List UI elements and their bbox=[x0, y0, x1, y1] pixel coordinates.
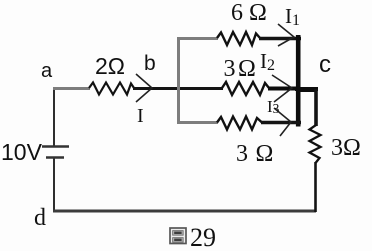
svg-text:3Ω: 3Ω bbox=[331, 135, 361, 161]
svg-text:a: a bbox=[41, 60, 53, 82]
svg-text:I: I bbox=[137, 105, 144, 127]
svg-text:29: 29 bbox=[190, 223, 216, 251]
svg-text:3: 3 bbox=[224, 56, 236, 82]
svg-text:2Ω: 2Ω bbox=[95, 53, 125, 79]
svg-text:I2: I2 bbox=[260, 49, 275, 74]
svg-text:10V: 10V bbox=[1, 139, 43, 165]
svg-text:b: b bbox=[144, 52, 156, 75]
svg-text:3: 3 bbox=[236, 141, 248, 167]
svg-text:c: c bbox=[319, 51, 331, 78]
svg-text:6 Ω: 6 Ω bbox=[231, 0, 267, 26]
svg-text:Ω: Ω bbox=[238, 56, 256, 82]
svg-text:Ω: Ω bbox=[256, 141, 274, 167]
svg-text:d: d bbox=[34, 205, 46, 231]
svg-text:I1: I1 bbox=[285, 4, 300, 29]
